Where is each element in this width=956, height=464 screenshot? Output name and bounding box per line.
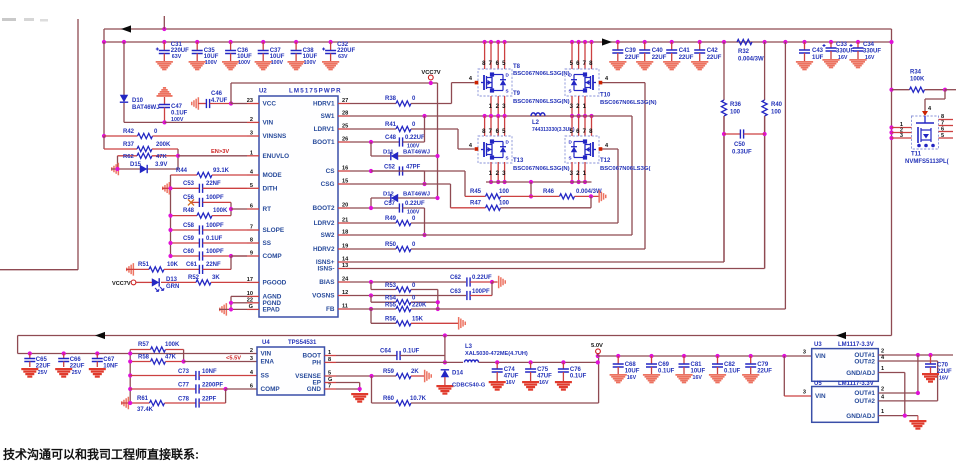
svg-text:47UF: 47UF — [504, 374, 519, 380]
svg-text:SW2: SW2 — [321, 232, 335, 239]
U2 pin 18 SW2 — [321, 230, 350, 240]
svg-text:GND/ADJ: GND/ADJ — [846, 413, 875, 420]
svg-text:C69: C69 — [658, 362, 670, 368]
wire left border horizontal — [0, 269, 78, 271]
svg-text:R55: R55 — [385, 303, 397, 309]
svg-text:OUT#1: OUT#1 — [854, 390, 875, 397]
resistor R61 37.4K — [121, 396, 196, 413]
wire PH row — [336, 361, 463, 363]
svg-text:U2: U2 — [259, 89, 267, 95]
wire T11 right pins 8 7 6 5 — [939, 114, 954, 139]
svg-text:BSC067N06LS3G(: BSC067N06LS3G( — [600, 166, 650, 172]
svg-text:26: 26 — [342, 137, 348, 143]
capacitor C77 2200PF — [128, 383, 257, 394]
svg-text:21: 21 — [342, 218, 348, 224]
svg-text:22: 22 — [247, 297, 253, 303]
U2 pin 21 LDRV2 — [314, 218, 350, 228]
label <5.5V — [226, 356, 241, 362]
svg-text:16V: 16V — [539, 380, 549, 386]
U2 pin 2 VIN — [247, 117, 274, 127]
wire VCC7V rail down — [437, 83, 439, 198]
svg-text:C57: C57 — [384, 201, 396, 207]
svg-text:100K: 100K — [213, 208, 228, 214]
U2 pin 5 DITH — [247, 183, 278, 193]
wire R57/R58 brackets — [128, 350, 257, 404]
U2 pin 9 COMP — [247, 251, 282, 261]
svg-text:3: 3 — [803, 350, 806, 356]
svg-text:C50: C50 — [734, 142, 746, 148]
node R42 left — [102, 134, 106, 138]
op-amp U2 LM5175PWPR box — [259, 88, 342, 318]
svg-text:2K: 2K — [411, 369, 419, 375]
capacitor C76 — [555, 360, 587, 390]
wire x104 column — [102, 40, 106, 136]
svg-text:C47: C47 — [171, 104, 183, 110]
svg-text:330UF: 330UF — [863, 49, 881, 55]
U2 pin 16 CS — [326, 166, 350, 176]
svg-text:28: 28 — [342, 111, 348, 117]
capacitor C62 0.22UF — [350, 275, 492, 287]
svg-text:3.9V: 3.9V — [155, 162, 167, 168]
svg-text:100V: 100V — [407, 210, 420, 216]
capacitor C39 22UF — [609, 40, 640, 70]
capacitor C75 — [522, 360, 552, 390]
svg-text:VCC7V: VCC7V — [112, 281, 131, 287]
svg-text:R61: R61 — [137, 396, 149, 402]
svg-text:220K: 220K — [412, 303, 427, 309]
wire SW bus mid — [531, 115, 545, 117]
svg-text:BSC067N06LS3G(N): BSC067N06LS3G(N) — [600, 100, 657, 106]
svg-text:R62: R62 — [123, 154, 135, 160]
svg-text:24: 24 — [342, 277, 349, 283]
power symbol above C47 — [157, 87, 173, 97]
svg-text:R32: R32 — [738, 49, 750, 55]
svg-text:0.22UF: 0.22UF — [405, 135, 425, 141]
resistor R51 10K — [126, 262, 199, 272]
svg-text:L2: L2 — [532, 120, 540, 126]
svg-text:0.33UF: 0.33UF — [732, 150, 752, 156]
U2 pin 26 BOOT1 — [312, 137, 350, 147]
svg-text:16V: 16V — [506, 380, 516, 386]
inductor L2 744313330(3.3UH) — [531, 113, 632, 133]
svg-text:2: 2 — [250, 117, 253, 123]
capacitor C61 22NF — [186, 256, 231, 274]
svg-text:47UF: 47UF — [537, 374, 552, 380]
gray artifact marks top-left — [2, 18, 48, 22]
svg-text:C75: C75 — [537, 367, 549, 373]
svg-text:0.1UF: 0.1UF — [206, 236, 223, 242]
U2 pin 28 SW1 — [321, 111, 350, 121]
svg-text:22UF: 22UF — [757, 369, 772, 375]
svg-text:C76: C76 — [570, 367, 582, 373]
svg-text:C73: C73 — [178, 369, 190, 375]
capacitor C74 — [489, 360, 519, 390]
svg-text:C46: C46 — [211, 91, 223, 97]
wire VCC7V riser and horizontal — [231, 83, 438, 104]
wire OUT#2 U3-U5 tie — [937, 361, 939, 401]
svg-text:10UF: 10UF — [691, 369, 706, 375]
U2 pin 11 FB — [326, 304, 350, 314]
U5 pin 4 OUT#2 — [854, 395, 937, 406]
U3 pin 2 OUT#1 — [854, 349, 918, 360]
svg-text:22UF: 22UF — [652, 55, 667, 61]
transistor T8/T9 package BSC067N06LS3G(N) — [469, 64, 570, 105]
regulator U4 TPS54531 box — [257, 340, 325, 395]
svg-text:D12: D12 — [383, 192, 395, 198]
U2 pin 19 HDRV2 — [313, 244, 350, 254]
svg-text:0.1UF: 0.1UF — [570, 374, 587, 380]
svg-text:COMP: COMP — [263, 253, 283, 260]
wire T10 bottom pin columns — [570, 96, 594, 118]
svg-text:6: 6 — [250, 384, 253, 390]
svg-text:5: 5 — [328, 371, 331, 377]
ground right of R46 — [598, 190, 606, 203]
arrow on output bus right — [836, 332, 846, 339]
arrow left on upper bus — [121, 25, 131, 32]
svg-text:7: 7 — [328, 384, 331, 390]
svg-text:T11: T11 — [911, 152, 922, 158]
capacitor C47 0.1UF 100V — [159, 97, 188, 125]
svg-text:0.22UF: 0.22UF — [405, 201, 425, 207]
svg-text:C40: C40 — [652, 48, 664, 54]
U4 pin 8 PH — [312, 357, 336, 367]
svg-text:15K: 15K — [412, 317, 424, 323]
svg-text:16: 16 — [342, 166, 348, 172]
wire SW2 row — [350, 116, 632, 235]
svg-text:D10: D10 — [132, 98, 144, 104]
label EN>3V — [211, 149, 229, 155]
resistor R58 47K — [130, 355, 183, 365]
svg-text:C48: C48 — [385, 135, 397, 141]
svg-text:R46: R46 — [543, 189, 555, 195]
svg-text:R53: R53 — [385, 283, 397, 289]
svg-text:6: 6 — [250, 204, 253, 210]
wire EP/GND bracket to ground — [336, 383, 368, 403]
svg-text:47K: 47K — [165, 355, 177, 361]
svg-text:100V: 100V — [205, 60, 218, 66]
svg-text:BAT46WJ: BAT46WJ — [403, 150, 430, 156]
svg-text:CSG: CSG — [321, 181, 335, 188]
svg-text:LDRV2: LDRV2 — [314, 220, 335, 227]
resistor R50 0 — [350, 242, 645, 252]
svg-text:C66: C66 — [70, 357, 82, 363]
resistor R47 100 — [451, 196, 592, 210]
svg-text:R41: R41 — [385, 122, 397, 128]
svg-text:C77: C77 — [178, 383, 190, 389]
resistor R40 100 vertical — [762, 42, 783, 116]
capacitor C37 — [255, 40, 285, 70]
svg-text:22UF: 22UF — [679, 55, 694, 61]
svg-text:1: 1 — [328, 350, 331, 356]
resistor R42 0 — [104, 129, 247, 139]
svg-text:10K: 10K — [167, 262, 179, 268]
svg-text:100: 100 — [730, 110, 741, 116]
resistor R32 0.004/3W shunt — [737, 39, 764, 62]
power port VCC7V bottom — [112, 280, 136, 287]
wire T12 bottom pin columns — [570, 162, 587, 184]
svg-text:R52: R52 — [188, 275, 200, 281]
svg-text:10NF: 10NF — [103, 364, 118, 370]
svg-text:22UF: 22UF — [36, 364, 51, 370]
svg-text:C67: C67 — [103, 357, 115, 363]
capacitor C32 — [322, 40, 355, 70]
wire U5 VIN riser — [784, 356, 811, 396]
svg-text:5.0V: 5.0V — [591, 343, 603, 349]
svg-text:C74: C74 — [504, 367, 516, 373]
junction R32 kelvin right — [763, 40, 767, 44]
wire R50 riser to T10 gate — [602, 83, 645, 249]
svg-text:BAT46WJ: BAT46WJ — [132, 105, 160, 111]
svg-text:10UF: 10UF — [625, 369, 640, 375]
svg-text:ENA: ENA — [261, 359, 275, 366]
svg-text:100K: 100K — [165, 342, 180, 348]
capacitor C34 330UF 16V — [849, 40, 881, 68]
U2 pin 23 VCC — [247, 98, 277, 108]
wire T13 bottom pin columns — [489, 162, 507, 184]
svg-text:R49: R49 — [385, 216, 397, 222]
svg-text:VIN: VIN — [263, 119, 274, 126]
wire C57 riser to SW2 — [422, 208, 426, 237]
svg-text:U5: U5 — [814, 381, 822, 387]
svg-text:22NF: 22NF — [206, 262, 221, 268]
U4 pin 3 ENA — [250, 356, 275, 366]
svg-text:C82: C82 — [724, 362, 736, 368]
svg-text:100V: 100V — [304, 60, 317, 66]
svg-text:VCC: VCC — [263, 101, 277, 108]
svg-text:3: 3 — [803, 390, 806, 396]
svg-text:16V: 16V — [838, 55, 848, 61]
wire output bus left drop — [18, 336, 257, 354]
U5 pin 3 VIN — [803, 390, 826, 401]
diode D14 CDBC540-G — [436, 370, 485, 395]
svg-text:CS: CS — [326, 168, 336, 175]
resistor R59 2K — [336, 369, 424, 379]
svg-text:SW1: SW1 — [321, 113, 335, 120]
svg-text:744313330(3.3UH): 744313330(3.3UH) — [532, 127, 575, 133]
wire output bus y335.5 — [18, 333, 892, 337]
wire R46 tap riser — [529, 180, 533, 199]
wire R38 to T8 gate pin4 — [452, 83, 475, 104]
svg-text:23: 23 — [247, 98, 253, 104]
svg-text:3K: 3K — [212, 275, 220, 281]
svg-text:13: 13 — [342, 263, 348, 269]
svg-text:R38: R38 — [385, 96, 397, 102]
bottom caption text — [3, 447, 199, 462]
led D13 GRN — [136, 277, 179, 292]
svg-text:T8: T8 — [513, 64, 521, 70]
ground left of C46 — [191, 97, 199, 110]
svg-text:S: S — [569, 156, 572, 161]
wire left border vertical — [77, 19, 79, 270]
wire SW1 row — [350, 114, 531, 118]
svg-text:R36: R36 — [730, 102, 742, 108]
svg-text:CDBC540-G: CDBC540-G — [452, 383, 486, 389]
svg-text:0.22UF: 0.22UF — [472, 275, 492, 281]
svg-text:C60: C60 — [183, 249, 195, 255]
resistor R37 200K — [104, 142, 178, 152]
svg-text:U3: U3 — [814, 342, 822, 348]
svg-text:22UF: 22UF — [70, 364, 85, 370]
wire FB row to output divider — [438, 308, 786, 310]
resistor R53 0 — [371, 282, 438, 292]
svg-text:LM5175PWPR: LM5175PWPR — [289, 88, 342, 95]
svg-text:5: 5 — [250, 183, 253, 189]
wire FB riser from top bus — [783, 40, 787, 309]
svg-text:20: 20 — [342, 203, 348, 209]
U2 pin 15 CSG — [321, 179, 350, 189]
svg-text:17: 17 — [247, 277, 253, 283]
U3 pin 4 OUT#2 — [854, 355, 937, 366]
svg-text:63V: 63V — [338, 54, 348, 60]
svg-text:1: 1 — [250, 150, 253, 156]
capacitor C68 — [610, 354, 640, 383]
svg-text:HDRV2: HDRV2 — [313, 246, 335, 253]
capacitor C42 22UF — [691, 40, 722, 70]
svg-text:3: 3 — [250, 131, 253, 137]
wire left bracket x170.5 — [170, 175, 172, 256]
resistor R36 100 vertical — [721, 42, 741, 116]
svg-text:DITH: DITH — [263, 185, 278, 192]
svg-text:<5.5V: <5.5V — [226, 356, 241, 362]
diode D10 BAT46WJ — [120, 95, 160, 111]
wire T10 top pin columns — [570, 40, 594, 69]
svg-text:100PF: 100PF — [206, 249, 224, 255]
ground right of R59 — [424, 370, 432, 383]
U2 pin 13 ISNS- — [317, 263, 350, 273]
transistor T13 package BSC067N06LS3G(N) — [469, 136, 570, 172]
svg-text:0.1UF: 0.1UF — [171, 111, 188, 117]
svg-text:37.4K: 37.4K — [137, 407, 154, 413]
wire ISNS- row — [350, 116, 765, 269]
svg-text:G: G — [328, 377, 332, 383]
svg-text:VOSNS: VOSNS — [312, 293, 335, 300]
wire T8 top pin columns — [482, 40, 507, 69]
svg-text:R34: R34 — [910, 70, 922, 76]
U2 pin 8 SS — [247, 238, 272, 248]
resistor R41 0 — [350, 122, 458, 132]
svg-text:PGOOD: PGOOD — [263, 279, 287, 286]
svg-text:C70: C70 — [937, 363, 949, 369]
svg-text:BSC067N06LS3G(N): BSC067N06LS3G(N) — [513, 166, 570, 172]
svg-text:ENUVLO: ENUVLO — [263, 153, 290, 160]
wire x104 down to R37 — [103, 136, 105, 149]
svg-text:OUT#2: OUT#2 — [854, 398, 875, 405]
svg-text:D14: D14 — [452, 371, 464, 377]
svg-text:T10: T10 — [600, 93, 611, 99]
svg-text:VIN: VIN — [815, 393, 826, 400]
inductor L3 XAL5030-472ME(4.7UH) — [465, 344, 598, 362]
capacitor C57 0.22UF 100V — [350, 201, 425, 216]
capacitor C69 — [643, 354, 675, 383]
transistor T12 package BSC067N06LS3G(N) — [565, 136, 650, 172]
U4 pin 4 SS — [250, 370, 270, 380]
svg-text:VIN: VIN — [815, 353, 826, 360]
capacitor C59 0.1UF — [168, 236, 247, 248]
arrow right on lower bus — [602, 38, 612, 45]
svg-text:R60: R60 — [383, 396, 395, 402]
ground left of R51 — [126, 263, 134, 276]
resistor R54 0 — [371, 296, 438, 305]
ground left of D15 — [111, 163, 119, 176]
svg-text:93.1K: 93.1K — [213, 168, 230, 174]
svg-text:16V: 16V — [693, 375, 703, 381]
svg-text:200K: 200K — [156, 142, 171, 148]
svg-text:0.1UF: 0.1UF — [724, 369, 741, 375]
capacitor C36 — [222, 40, 252, 70]
ground AGND/PGND/EPAD — [219, 303, 227, 316]
regulator U3 LM1117-3.3V box — [812, 342, 879, 381]
U4 pin 2 VIN — [250, 348, 272, 358]
U2 pin 22 PGND — [247, 297, 282, 307]
wire C63 riser — [491, 282, 493, 296]
svg-text:U4: U4 — [262, 340, 270, 346]
svg-text:VCC7V: VCC7V — [421, 70, 440, 76]
svg-text:8: 8 — [328, 357, 331, 363]
wire T11 left pins 1 2 3 — [889, 122, 911, 140]
svg-text:C79: C79 — [757, 362, 769, 368]
svg-text:ISNS-: ISNS- — [317, 266, 334, 273]
capacitor C67 — [89, 351, 119, 377]
svg-text:100V: 100V — [271, 60, 284, 66]
wire CS row to R45 — [371, 171, 465, 196]
capacitor C38 — [288, 40, 318, 70]
svg-text:1: 1 — [881, 366, 884, 372]
wire GND/ADJ tie — [903, 373, 907, 418]
wire EN row — [178, 155, 247, 157]
U2 pin G EPAD — [247, 304, 280, 314]
svg-text:R45: R45 — [470, 189, 482, 195]
svg-text:C62: C62 — [450, 275, 462, 281]
svg-text:2: 2 — [881, 387, 884, 393]
svg-text:C53: C53 — [183, 181, 195, 187]
resistor R45 100 — [465, 189, 531, 199]
wire VIN row — [165, 121, 248, 123]
svg-text:100: 100 — [499, 201, 510, 207]
svg-text:10: 10 — [247, 291, 253, 297]
svg-text:BSC067N06LS3G(N): BSC067N06LS3G(N) — [513, 99, 570, 105]
svg-text:63V: 63V — [172, 54, 182, 60]
svg-text:14: 14 — [342, 257, 349, 263]
svg-text:C81: C81 — [691, 362, 703, 368]
svg-text:2: 2 — [250, 348, 253, 354]
svg-text:EN>3V: EN>3V — [211, 149, 229, 155]
svg-text:C34: C34 — [863, 42, 875, 48]
wire T12 top pin columns — [570, 116, 594, 136]
wire R53/R54 bracket — [436, 290, 440, 312]
svg-text:100PF: 100PF — [206, 195, 224, 201]
wire OUT#1 rail to edge — [916, 353, 953, 357]
svg-text:C39: C39 — [625, 48, 637, 54]
svg-text:100PF: 100PF — [206, 223, 224, 229]
svg-text:100: 100 — [771, 110, 782, 116]
wire R37/R62 right bracket — [176, 149, 180, 169]
capacitor C50 0.33UF — [722, 116, 767, 269]
svg-text:TPS54531: TPS54531 — [288, 340, 317, 346]
svg-text:0.004/3W: 0.004/3W — [738, 57, 764, 63]
wire GND/ADJ to ground — [909, 416, 926, 430]
svg-text:10.7K: 10.7K — [410, 396, 427, 402]
svg-text:C64: C64 — [380, 349, 392, 355]
svg-text:R48: R48 — [183, 208, 195, 214]
diode D11 BAT46WJ — [371, 142, 440, 160]
svg-text:R40: R40 — [771, 102, 783, 108]
wire R49 riser to T12 gate — [602, 149, 618, 223]
ground right of C62 — [490, 276, 506, 289]
wire right vertical rail — [889, 29, 893, 336]
svg-text:BAT46WJ: BAT46WJ — [403, 192, 430, 198]
resistor R62 47K — [118, 153, 179, 160]
U2 pin 17 PGOOD — [247, 277, 287, 287]
